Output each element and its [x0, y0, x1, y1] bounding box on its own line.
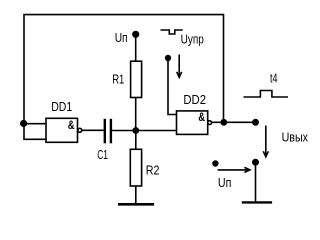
svg-text:&: & — [198, 110, 205, 124]
svg-text:R1: R1 — [112, 71, 124, 86]
svg-text:t4: t4 — [270, 71, 278, 86]
svg-text:&: & — [68, 118, 75, 132]
svg-text:C1: C1 — [97, 147, 108, 162]
svg-text:Uп: Uп — [115, 30, 128, 45]
svg-text:Uупр: Uупр — [181, 32, 204, 47]
svg-text:Uп: Uп — [218, 175, 232, 190]
svg-text:DD1: DD1 — [51, 99, 72, 114]
svg-text:Uвых: Uвых — [282, 129, 309, 144]
svg-text:R2: R2 — [146, 163, 160, 178]
svg-text:DD2: DD2 — [183, 92, 206, 107]
